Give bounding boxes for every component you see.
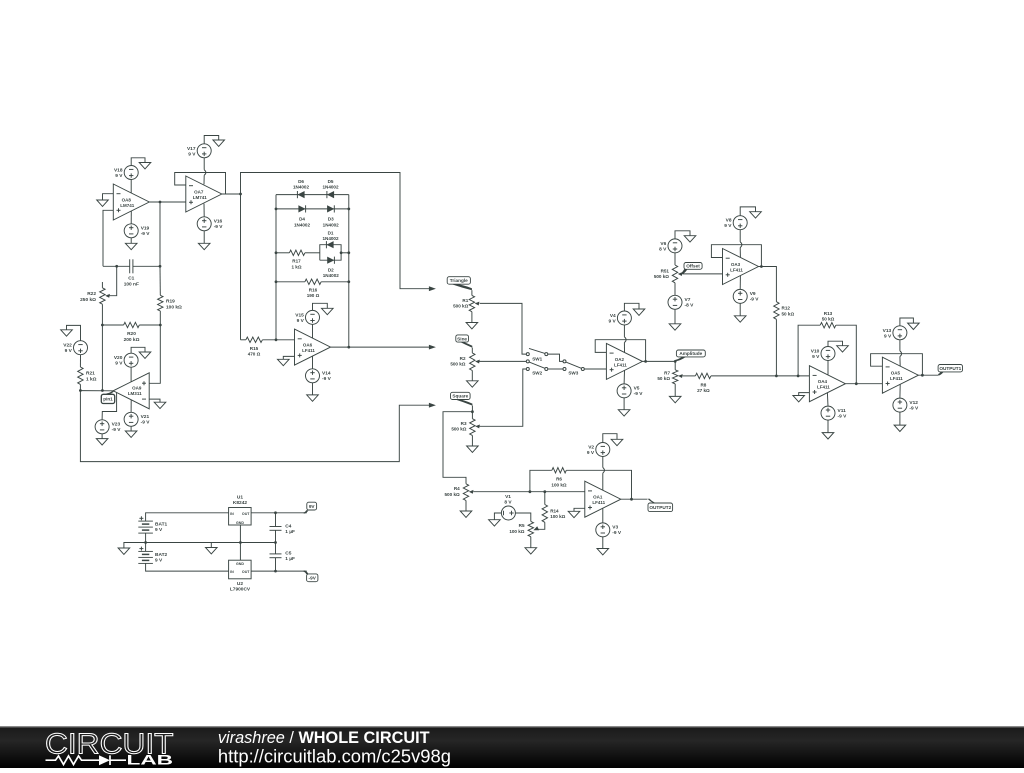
wire V16 to ground — [203, 231, 205, 244]
svg-text:R4: R4 — [454, 486, 460, 491]
ground at V15 — [322, 308, 334, 314]
wire V20 to OA9 V+ — [130, 367, 132, 382]
node R6 tap junction — [529, 490, 532, 493]
wire R15 to OA6 inverting input — [262, 339, 294, 341]
wire OA7 output to diode network and triangle node — [241, 173, 431, 340]
svg-text:D2: D2 — [328, 267, 334, 272]
svg-text:100 kΩ: 100 kΩ — [166, 304, 182, 310]
ground at R3 — [467, 446, 479, 452]
resistor R13 — [820, 311, 836, 328]
wire V18 to ground — [131, 158, 145, 166]
voltage source V14 — [306, 369, 332, 383]
svg-text:R5: R5 — [519, 523, 525, 528]
resistor R19 — [158, 295, 182, 311]
svg-text:C5: C5 — [285, 551, 291, 557]
switch SW3 — [563, 360, 584, 376]
voltage source V22 — [63, 341, 87, 355]
wire D1 D2 box to right rail — [341, 252, 349, 254]
svg-text:500 kΩ: 500 kΩ — [451, 427, 466, 432]
wire R2 to ground — [471, 371, 473, 381]
ground at V5 — [618, 410, 630, 416]
svg-text:V6: V6 — [660, 241, 666, 247]
svg-text:9 V: 9 V — [884, 333, 892, 339]
wire V20 to ground — [131, 347, 145, 353]
wire OA8 inverting input to ground — [103, 194, 114, 200]
svg-text:V1: V1 — [505, 494, 511, 500]
svg-text:V4: V4 — [610, 313, 616, 319]
svg-text:LM311: LM311 — [128, 391, 142, 396]
wire OA4 non-inverting input to ground — [799, 393, 810, 396]
svg-text:100 kΩ: 100 kΩ — [550, 514, 565, 519]
wire SW3 to OA2 non-inverting input — [584, 368, 606, 370]
wire V19 to ground — [130, 238, 132, 244]
svg-text:D5: D5 — [328, 179, 334, 184]
node C1 left junction — [115, 265, 118, 268]
svg-text:500 kΩ: 500 kΩ — [445, 492, 460, 497]
node OA5 feedback junction — [921, 374, 924, 377]
resistor R17 — [289, 250, 305, 269]
wire OA7 output — [222, 193, 241, 195]
svg-text:9 V: 9 V — [115, 173, 123, 179]
svg-text:R14: R14 — [550, 508, 559, 513]
svg-text:LM741: LM741 — [193, 195, 208, 200]
svg-text:U2: U2 — [237, 581, 243, 587]
node R12 summing junction — [775, 375, 778, 378]
svg-text:R21: R21 — [86, 371, 95, 377]
wire R7 to ground — [674, 384, 676, 397]
svg-text:-9 V: -9 V — [141, 420, 151, 426]
svg-text:50 kΩ: 50 kΩ — [822, 317, 835, 322]
svg-text:C4: C4 — [285, 523, 291, 529]
svg-text:9 V: 9 V — [155, 557, 163, 563]
wire OA3 output to R12 — [759, 267, 777, 302]
ground at V17 — [213, 140, 225, 146]
svg-text:D4: D4 — [299, 217, 305, 222]
svg-text:V13: V13 — [883, 328, 892, 334]
wire OA9 V- to V21 — [130, 400, 132, 413]
wire OA5 output to OUTPUT1 — [918, 374, 938, 376]
wire OA3 feedback loop — [711, 245, 761, 267]
wire V17 to ground — [204, 136, 219, 144]
voltage source V19 — [124, 224, 150, 238]
capacitor C1 — [124, 259, 139, 287]
potentiometer R7 — [657, 361, 682, 384]
wire V6 to ground — [675, 231, 690, 239]
svg-text:LM741: LM741 — [120, 203, 135, 208]
svg-text:LF411: LF411 — [614, 362, 627, 367]
svg-text:-9 V: -9 V — [838, 413, 848, 419]
wire BAT1 to U1 IN — [146, 513, 229, 521]
svg-text:V10: V10 — [811, 349, 820, 355]
switch SW2 — [526, 360, 548, 376]
wire C1 left — [103, 265, 130, 267]
svg-text:190 Ω: 190 Ω — [307, 293, 320, 298]
svg-text:-9 V: -9 V — [141, 231, 151, 237]
ground at V8 — [750, 212, 762, 218]
svg-text:D3: D3 — [328, 217, 334, 222]
svg-text:OA5: OA5 — [891, 371, 901, 376]
resistor R21 — [78, 367, 97, 384]
wire R2 wiper to SW2 — [480, 360, 527, 362]
wire OA8 output to OA7 input — [149, 201, 186, 203]
svg-text:R22: R22 — [87, 291, 96, 297]
svg-text:1N4002: 1N4002 — [294, 222, 311, 227]
wire SW1 to SW3 — [548, 354, 563, 361]
svg-text:OA8: OA8 — [122, 198, 132, 203]
svg-text:OUT: OUT — [242, 512, 250, 516]
svg-text:V15: V15 — [295, 312, 304, 318]
node OA4 output junction — [855, 382, 858, 385]
svg-text:1N4002: 1N4002 — [322, 185, 339, 190]
node OA7 output junction — [239, 193, 242, 196]
resistor R16 — [305, 279, 321, 298]
svg-text:D1: D1 — [328, 230, 334, 235]
flag -9V — [304, 570, 318, 581]
op-amp OA6 — [295, 329, 331, 365]
wire V1 to ground — [494, 513, 501, 520]
wire V21 to ground — [130, 426, 132, 431]
ground at R5 — [525, 548, 537, 554]
svg-text:V2: V2 — [588, 445, 594, 451]
op-amp OA2 — [606, 343, 642, 379]
wire diode row D6 D5 — [276, 194, 349, 196]
wire R16 left — [276, 281, 305, 283]
ground at V14 — [307, 395, 319, 401]
svg-text:-9 V: -9 V — [612, 530, 622, 536]
node R20 left junction — [101, 324, 104, 327]
flag 9V — [304, 502, 317, 513]
wire OA9 gnd pin to V23 — [102, 393, 117, 420]
svg-text:200 kΩ: 200 kΩ — [124, 337, 140, 343]
svg-text:GND: GND — [236, 562, 244, 566]
ground at V23 — [96, 439, 108, 445]
node OA2 feedback junction — [644, 360, 647, 363]
wire diode row D4 D3 — [276, 208, 349, 210]
wire OA5 V- to V12 — [899, 384, 901, 398]
wire R22 down to OA9 output node — [101, 304, 103, 390]
ground at V20 — [139, 352, 151, 358]
flag Sine — [456, 335, 473, 348]
node right rail R17 row — [347, 251, 350, 254]
potentiometer R1 — [453, 290, 479, 312]
svg-text:R51: R51 — [661, 268, 670, 273]
ground at V7 — [669, 324, 681, 330]
node R21 output junction — [79, 389, 82, 392]
svg-text:R1: R1 — [462, 298, 468, 303]
wire R6 to OA1 output — [566, 470, 631, 499]
svg-text:V18: V18 — [114, 168, 123, 174]
svg-text:OUTPUT1: OUTPUT1 — [939, 366, 961, 371]
wire R19 to R20 node — [159, 311, 161, 325]
flag OUTPUT2 — [648, 499, 673, 512]
wire OA4 output to OA5 — [845, 383, 882, 385]
svg-text:OA7: OA7 — [194, 190, 204, 195]
wire OA7 V- to V16 — [203, 204, 205, 217]
svg-text:IN: IN — [230, 512, 234, 516]
svg-text:250 kΩ: 250 kΩ — [80, 297, 96, 303]
node left rail R17 row — [275, 251, 278, 254]
svg-text:9 V: 9 V — [724, 223, 732, 229]
svg-text:V14: V14 — [322, 371, 331, 377]
wire V4 to ground — [624, 303, 639, 311]
svg-text:U1: U1 — [237, 495, 243, 501]
svg-text:1N4002: 1N4002 — [293, 185, 310, 190]
wire V23 to ground — [101, 434, 103, 439]
wire R51 wiper to OA3 non-inverting input — [683, 273, 723, 275]
potentiometer R5 wiper arrow — [533, 526, 539, 530]
diode D1 — [322, 230, 339, 248]
voltage source V10 — [811, 347, 835, 361]
svg-text:50 kΩ: 50 kΩ — [657, 376, 670, 381]
node D1 D2 box right — [340, 251, 343, 254]
wire V7 to ground — [674, 309, 676, 324]
svg-text:-9 V: -9 V — [322, 376, 332, 382]
ground at V3 — [597, 549, 609, 555]
diode D1 branch box — [320, 245, 341, 261]
wire R14 to R5 wiper — [539, 522, 545, 529]
voltage source V13 — [883, 326, 907, 340]
svg-text:-9 V: -9 V — [634, 391, 644, 397]
voltage source V7 — [668, 295, 694, 309]
wire V6 to R51 — [674, 253, 676, 265]
node C5 bottom junction — [274, 570, 277, 573]
voltage source V8 — [724, 216, 747, 230]
ground at OA9 inverting input — [154, 402, 166, 408]
wire U1 GND to ground row — [239, 525, 241, 543]
voltage source V12 — [893, 398, 919, 412]
svg-text:V7: V7 — [685, 297, 691, 303]
resistor R6 — [551, 468, 566, 488]
svg-text:27 kΩ: 27 kΩ — [697, 388, 710, 393]
wire V2 to OA1 V+ with hop — [602, 457, 604, 468]
wire V15 to ground — [313, 303, 328, 310]
svg-text:1 kΩ: 1 kΩ — [86, 377, 97, 383]
svg-text:-9 V: -9 V — [909, 405, 919, 411]
wire R17 left — [276, 252, 289, 254]
wire R14 top — [544, 492, 546, 505]
wire R6 feedback loop — [530, 470, 552, 491]
svg-text:OA6: OA6 — [303, 343, 313, 348]
regulator U2 — [229, 560, 252, 593]
node R22 column junction — [101, 389, 104, 392]
wire center node to BAT2 — [145, 543, 147, 552]
svg-text:V11: V11 — [838, 408, 847, 414]
ground at V10 — [837, 346, 849, 352]
node left rail R16 row — [275, 280, 278, 283]
svg-text:-9 V: -9 V — [214, 224, 224, 230]
wire V9 to ground — [739, 303, 741, 315]
node R13 tap junction — [797, 375, 800, 378]
svg-text:1 kΩ: 1 kΩ — [291, 264, 301, 269]
flag Square — [451, 392, 473, 405]
wire R4 to ground — [465, 501, 467, 512]
node C4 top junction — [274, 511, 277, 514]
svg-text:V8: V8 — [726, 218, 732, 224]
wire R12 to summing node — [775, 319, 777, 376]
voltage source V6 — [659, 239, 682, 253]
potentiometer R2 — [450, 348, 479, 371]
wire ground row — [146, 542, 276, 544]
svg-text:9 V: 9 V — [297, 318, 305, 324]
wire V22 to R21 — [79, 355, 81, 367]
ground at battery — [118, 548, 130, 554]
svg-text:9V: 9V — [309, 504, 316, 509]
svg-text:OA2: OA2 — [615, 357, 625, 362]
svg-text:-9 V: -9 V — [112, 427, 122, 433]
svg-text:BAT1: BAT1 — [155, 522, 168, 528]
svg-text:virashree / WHOLE CIRCUIT: virashree / WHOLE CIRCUIT — [218, 729, 430, 747]
ground at V12 — [894, 425, 906, 431]
ground at R2 — [467, 381, 479, 387]
svg-text:R12: R12 — [782, 306, 791, 311]
svg-text:Triangle: Triangle — [450, 278, 468, 283]
wire V10 to OA4 V+ — [827, 361, 829, 375]
voltage source V11 — [821, 406, 847, 420]
op-amp OA4 — [809, 366, 845, 402]
node C4 bottom junction — [274, 541, 277, 544]
wire OA8 non-inverting input feedback — [103, 210, 113, 266]
svg-text:1 µF: 1 µF — [285, 556, 295, 562]
svg-text:-8 V: -8 V — [685, 303, 695, 309]
svg-text:-9 V: -9 V — [750, 297, 760, 303]
wire U1 OUT to 9V flag — [251, 512, 307, 514]
node OA3 feedback junction — [760, 265, 763, 268]
svg-text:R15: R15 — [250, 346, 259, 351]
svg-text:LF411: LF411 — [817, 385, 830, 390]
svg-text:K8242: K8242 — [233, 500, 247, 506]
svg-text:500 kΩ: 500 kΩ — [453, 304, 468, 309]
wire V13 to OA5 V+ with hop — [899, 340, 901, 351]
wire OA1 non-inverting input to ground — [574, 508, 585, 511]
battery BAT2 — [138, 547, 167, 564]
wire OA8 V- to V19 — [130, 211, 132, 224]
wire R5 to ground — [530, 537, 532, 548]
resistor R8 — [695, 373, 711, 393]
ground at supply mid — [206, 548, 218, 554]
svg-text:V3: V3 — [612, 525, 618, 531]
ground at V16 — [198, 243, 210, 249]
op-amp OA8 — [113, 184, 149, 220]
svg-text:C1: C1 — [128, 276, 134, 282]
voltage source V23 — [95, 420, 121, 434]
node right rail R16 row — [347, 280, 350, 283]
svg-text:V22: V22 — [63, 343, 72, 349]
wire OA9 inverting input to ground — [149, 399, 160, 402]
svg-text:LAB: LAB — [127, 753, 174, 768]
diode D2 — [323, 257, 340, 279]
wire R22 wiper to C1 node — [110, 266, 117, 295]
resistor R15 — [246, 337, 263, 357]
wire R21 to output node — [79, 384, 81, 390]
wire OA8 output down to C1 — [159, 202, 161, 266]
wire diode network right rail — [348, 195, 350, 348]
wire OA5 feedback loop — [871, 354, 923, 376]
voltage source V17 — [187, 144, 211, 158]
wire V15 to OA6 V+ — [312, 324, 314, 338]
wire OA1 output to OUTPUT2 — [621, 498, 648, 500]
voltage source V4 — [608, 311, 631, 325]
svg-text:GND: GND — [236, 521, 244, 525]
svg-text:1N4002: 1N4002 — [323, 273, 340, 278]
wire R51 to V7 — [674, 283, 676, 296]
wire R1 to ground — [471, 312, 473, 323]
wire V13 to ground — [900, 318, 914, 326]
node left rail D4 row — [275, 208, 278, 211]
svg-text:V23: V23 — [112, 422, 121, 428]
svg-text:50 kΩ: 50 kΩ — [782, 311, 795, 316]
wire BAT2 to U2 IN — [146, 563, 229, 571]
voltage source V3 — [596, 523, 622, 537]
arrow into Triangle node — [429, 286, 436, 291]
node C1 right junction — [159, 265, 162, 268]
ground at V6 — [684, 236, 696, 242]
wire ground row stem — [210, 543, 212, 548]
svg-text:R7: R7 — [664, 370, 670, 375]
svg-text:R6: R6 — [556, 477, 562, 482]
wire R1 wiper to SW1 — [480, 303, 527, 354]
svg-text:R3: R3 — [461, 421, 467, 426]
potentiometer R22 — [80, 282, 110, 304]
wire OA2 feedback loop — [595, 340, 645, 362]
svg-text:9 V: 9 V — [812, 354, 820, 360]
node R14 tap junction — [543, 490, 546, 493]
svg-text:9 V: 9 V — [587, 450, 595, 456]
svg-text:100 nF: 100 nF — [124, 281, 139, 287]
wire V17 to OA7 V+ with hop — [203, 158, 205, 170]
node OA8 output junction — [159, 201, 162, 204]
wire C4 top — [275, 513, 277, 527]
svg-text:OA1: OA1 — [593, 495, 603, 500]
node R20 right junction — [159, 324, 162, 327]
svg-text:LF411: LF411 — [592, 500, 605, 505]
wire V12 to ground — [899, 412, 901, 425]
potentiometer R51 — [654, 265, 683, 283]
svg-text:Offset: Offset — [686, 264, 700, 269]
svg-text:100 kΩ: 100 kΩ — [509, 529, 524, 534]
svg-text:V16: V16 — [214, 219, 223, 225]
battery BAT1 — [138, 516, 167, 533]
diode D3 — [323, 205, 340, 227]
svg-text:V21: V21 — [141, 414, 150, 420]
svg-text:V9: V9 — [750, 291, 756, 297]
node OA1 output junction — [630, 498, 633, 501]
wire OA4 V- to V11 — [826, 393, 829, 406]
voltage source V18 — [114, 166, 138, 180]
ground at V21 — [125, 431, 137, 437]
wire R3 node to R4 — [443, 412, 472, 484]
capacitor C4 — [270, 523, 296, 535]
diode D6 — [293, 179, 310, 198]
wire R13 feedback loop — [798, 325, 820, 376]
svg-text:V12: V12 — [909, 400, 918, 406]
arrow into Square node — [429, 403, 436, 408]
wire C1 node to R19 — [159, 266, 161, 295]
voltage source V15 — [295, 310, 319, 324]
node OA6 output rail junction — [347, 346, 350, 349]
svg-text:R20: R20 — [127, 331, 136, 337]
ground at V13 — [908, 323, 920, 329]
wire R13 to OA4 output — [836, 325, 857, 384]
diode D5 — [322, 179, 339, 198]
svg-text:Sine: Sine — [457, 336, 467, 341]
wire OA9 output row — [80, 390, 113, 392]
ground at V18 — [139, 163, 151, 169]
potentiometer R5 — [509, 521, 533, 536]
node R3 branch junction — [471, 410, 474, 413]
ground at V9 — [734, 316, 746, 322]
voltage source V16 — [197, 217, 223, 231]
ground at V1 — [489, 520, 501, 526]
